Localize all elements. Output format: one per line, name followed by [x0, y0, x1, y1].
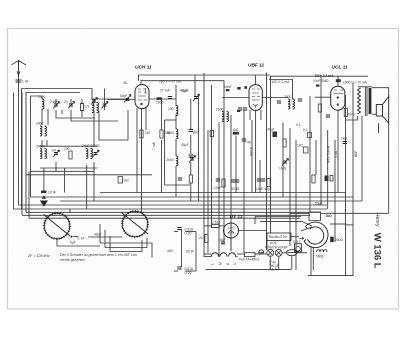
- svg-text:50µF: 50µF: [315, 202, 323, 206]
- svg-text:400: 400: [167, 249, 173, 253]
- svg-text:1000 Ω ≈ 70 mA: 1000 Ω ≈ 70 mA: [343, 81, 368, 85]
- svg-text:24: 24: [52, 149, 56, 153]
- svg-text:UCL 11: UCL 11: [332, 65, 348, 71]
- svg-text:10nF: 10nF: [348, 113, 356, 117]
- svg-text:10nF 2MΩ: 10nF 2MΩ: [313, 79, 329, 83]
- svg-text:NSV 0,4mA: NSV 0,4mA: [327, 145, 331, 163]
- svg-text:200Ω: 200Ω: [335, 238, 344, 242]
- svg-text:10n: 10n: [124, 179, 130, 183]
- svg-text:1 nF: 1 nF: [22, 80, 29, 84]
- svg-text:2000: 2000: [216, 108, 224, 112]
- svg-text:U 20: U 20: [185, 271, 192, 275]
- svg-text:0,1: 0,1: [296, 123, 301, 127]
- svg-text:2000: 2000: [284, 95, 292, 99]
- svg-text:AGC: AGC: [270, 241, 278, 245]
- svg-text:6µF: 6µF: [70, 241, 76, 245]
- svg-text:U 615: U 615: [212, 221, 221, 225]
- svg-text:1kΩ: 1kΩ: [233, 128, 239, 132]
- svg-text:10nF: 10nF: [214, 186, 222, 190]
- svg-text:50pF: 50pF: [120, 94, 128, 98]
- svg-text:VO+TA+MKO: VO+TA+MKO: [239, 257, 260, 261]
- svg-text:2kΩ: 2kΩ: [326, 214, 333, 218]
- svg-text:ZF = 128 kHz: ZF = 128 kHz: [27, 254, 50, 258]
- svg-text:U 20: U 20: [185, 232, 192, 236]
- svg-text:100: 100: [168, 107, 174, 111]
- svg-text:7 mA: 7 mA: [152, 142, 156, 150]
- svg-text:rechts gesehen.: rechts gesehen.: [60, 258, 86, 262]
- svg-text:UY 11: UY 11: [230, 214, 243, 220]
- svg-text:0,3A: 0,3A: [334, 150, 338, 158]
- svg-text:UCH 11: UCH 11: [135, 65, 152, 71]
- svg-text:5000: 5000: [316, 255, 324, 259]
- svg-text:40µF: 40µF: [180, 89, 188, 93]
- svg-text:40 40: 40 40: [231, 187, 239, 191]
- svg-text:60mA: 60mA: [250, 147, 254, 156]
- svg-text:180 V ≈ 17 mA: 180 V ≈ 17 mA: [159, 80, 182, 84]
- svg-text:300: 300: [193, 131, 199, 135]
- svg-text:24pF 20000: 24pF 20000: [82, 144, 100, 148]
- svg-text:2000: 2000: [38, 95, 46, 99]
- svg-text:NSV 0,4 mA: NSV 0,4 mA: [315, 74, 334, 78]
- svg-text:100 V, 2 mA: 100 V, 2 mA: [272, 80, 291, 84]
- svg-text:20000: 20000: [36, 145, 45, 149]
- svg-text:1kΩ: 1kΩ: [341, 137, 347, 141]
- svg-text:2000: 2000: [167, 131, 175, 135]
- svg-text:Rückw./2Tür: Rückw./2Tür: [269, 235, 288, 239]
- svg-text:2k: 2k: [199, 236, 203, 240]
- svg-text:←C 14→: ←C 14→: [74, 237, 88, 241]
- svg-text:10nF 40µF: 10nF 40µF: [256, 187, 272, 191]
- svg-text:27 mA: 27 mA: [160, 89, 170, 93]
- svg-text:W 136 L: W 136 L: [372, 233, 383, 269]
- svg-text:0,5: 0,5: [85, 105, 90, 109]
- svg-text:2000: 2000: [156, 101, 164, 105]
- svg-text:24: 24: [64, 100, 68, 104]
- svg-text:24pF: 24pF: [50, 100, 58, 104]
- svg-text:1M: 1M: [145, 131, 150, 135]
- svg-text:BEF: BEF: [354, 151, 358, 157]
- svg-text:UBF 11: UBF 11: [248, 63, 265, 69]
- svg-text:2000: 2000: [167, 158, 175, 162]
- svg-text:100: 100: [64, 147, 70, 151]
- svg-text:1MΩ: 1MΩ: [279, 167, 287, 171]
- svg-text:60 W: 60 W: [186, 250, 195, 254]
- svg-text:1kΩ: 1kΩ: [297, 144, 303, 148]
- svg-text:Der 3 Schalter ist gezeichnet: Der 3 Schalter ist gezeichnet dem 1 cm 2…: [60, 253, 137, 257]
- svg-text:10 nF: 10 nF: [48, 191, 56, 195]
- svg-text:L: L: [211, 263, 215, 265]
- svg-text:Henry: Henry: [374, 213, 380, 227]
- svg-text:0,1: 0,1: [303, 128, 308, 132]
- svg-text:M: M: [219, 262, 223, 265]
- svg-text:40µF: 40µF: [181, 143, 189, 147]
- svg-text:MIN07A V2K8F: MIN07A V2K8F: [265, 246, 288, 250]
- svg-text:40µF: 40µF: [267, 128, 275, 132]
- svg-text:2µF: 2µF: [258, 252, 264, 256]
- svg-text:50-: 50-: [124, 81, 129, 85]
- svg-text:40pF: 40pF: [94, 233, 102, 237]
- svg-text:10µF: 10µF: [218, 238, 226, 242]
- svg-text:2000: 2000: [36, 122, 44, 126]
- svg-text:S 0,1: S 0,1: [293, 240, 301, 244]
- svg-text:10nF: 10nF: [224, 85, 232, 89]
- svg-text:0,1 A: 0,1 A: [269, 268, 277, 272]
- svg-text:40: 40: [247, 141, 251, 145]
